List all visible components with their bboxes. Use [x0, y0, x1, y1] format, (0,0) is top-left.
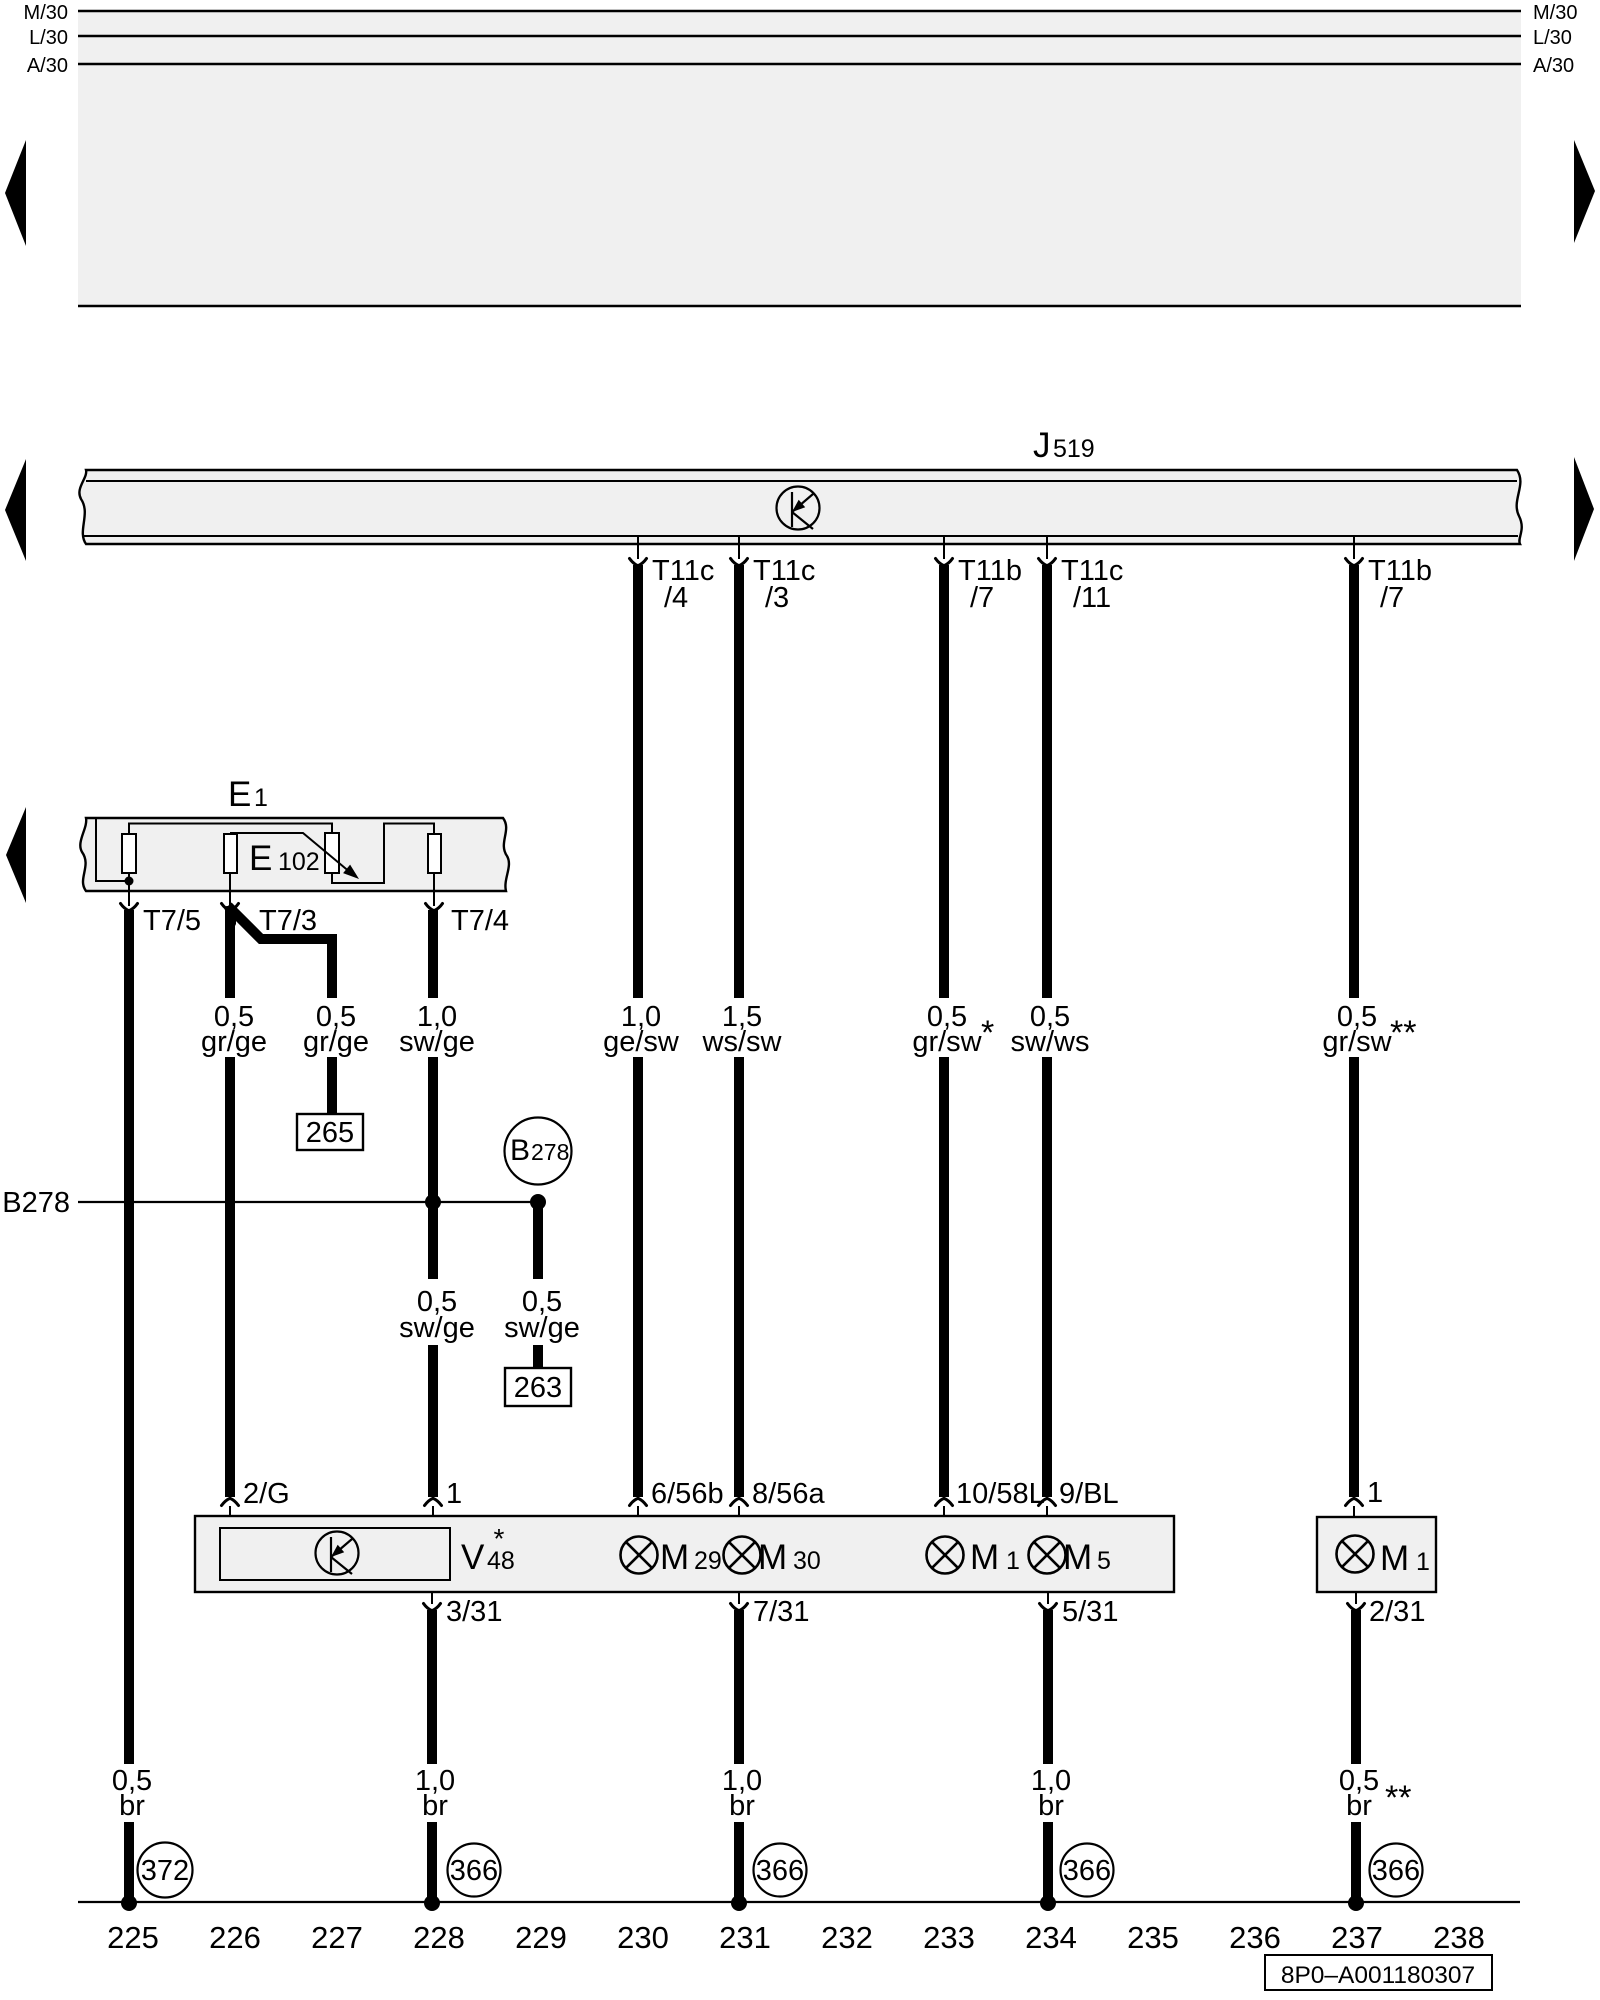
track number 231 — [719, 1920, 771, 1955]
svg-text:366: 366 — [756, 1855, 804, 1887]
svg-text:229: 229 — [515, 1920, 567, 1955]
ground rail — [78, 1901, 1520, 1903]
pin 1 of M1 — [1346, 1477, 1384, 1517]
svg-text:A/30: A/30 — [1533, 55, 1574, 77]
lamp unit bar — [195, 1516, 1174, 1592]
svg-text:ws/sw: ws/sw — [702, 1026, 783, 1058]
label 0,5 gr/sw * — [912, 1001, 994, 1058]
page arrow right J519 — [1574, 457, 1594, 561]
label L/30 right — [1533, 27, 1572, 49]
ground junction track237 — [1348, 1895, 1364, 1911]
E1 internal wire right step — [332, 824, 434, 884]
svg-text:519: 519 — [1053, 435, 1095, 463]
svg-text:sw/ge: sw/ge — [399, 1026, 475, 1058]
net B278 wire — [78, 1201, 538, 1203]
svg-text:T7/3: T7/3 — [259, 905, 317, 937]
wire L/30 — [78, 35, 1521, 37]
label 0,5 br ** track237 — [1339, 1765, 1412, 1822]
wire 0,5 sw/ge from B278 — [533, 1202, 543, 1279]
svg-text:L/30: L/30 — [1533, 27, 1572, 49]
wire 1,0 br track228 lower — [427, 1822, 437, 1902]
svg-text:br: br — [119, 1790, 145, 1822]
wire 0,5 gr/sw ** lower — [1349, 1057, 1359, 1497]
wire 0,5 gr/sw upper — [939, 565, 949, 998]
pin 7/31 — [731, 1592, 810, 1628]
label 1,0 ge/sw — [603, 1001, 680, 1058]
J519 pin T11c/3 — [731, 536, 816, 614]
track number 238 — [1433, 1920, 1485, 1955]
J519 pin T11b/7 right — [1346, 536, 1432, 614]
svg-text:30: 30 — [793, 1547, 821, 1575]
wire sw/ge to pin 1 — [428, 1345, 438, 1497]
label 0,5 gr/ge track226 — [201, 1001, 267, 1058]
wire 0,5 sw/ws lower — [1042, 1057, 1052, 1497]
wire to box 265 — [327, 1057, 337, 1115]
lamp M5 — [1029, 1537, 1111, 1578]
wire 0,5 br track225 lower — [124, 1822, 134, 1902]
pin 9/BL — [1039, 1478, 1119, 1516]
wire 1,5 ws/sw upper — [734, 565, 744, 998]
svg-text:226: 226 — [209, 1920, 261, 1955]
svg-text:M: M — [758, 1538, 787, 1577]
wire 1,0 ge/sw lower — [633, 1057, 643, 1497]
track number 225 — [107, 1920, 159, 1955]
svg-text:V: V — [461, 1538, 485, 1577]
V48 internal symbol K — [316, 1532, 359, 1575]
svg-text:234: 234 — [1025, 1920, 1077, 1955]
wire branch to 265 — [226, 906, 332, 998]
dimmer E102 wire and arrow — [230, 833, 359, 879]
page arrow right top — [1574, 140, 1595, 243]
svg-text:gr/ge: gr/ge — [303, 1026, 369, 1058]
J519 pin T11c/11 — [1039, 536, 1124, 614]
svg-text:/7: /7 — [1380, 582, 1404, 614]
svg-text:M/30: M/30 — [24, 2, 68, 24]
label 0,5 gr/ge branch — [303, 1001, 369, 1058]
ground point 366 track228 — [448, 1844, 501, 1897]
svg-text:366: 366 — [1372, 1855, 1420, 1887]
track number 237 — [1331, 1920, 1383, 1955]
J519 pin T11b/7 — [936, 536, 1022, 614]
pin T7/5 — [121, 904, 202, 938]
wire 0,5 br track237 lower — [1351, 1822, 1361, 1902]
svg-text:1: 1 — [1416, 1548, 1430, 1576]
label A/30 right — [1533, 55, 1574, 77]
svg-text:7/31: 7/31 — [753, 1596, 809, 1628]
svg-text:232: 232 — [821, 1920, 873, 1955]
wire M/30 — [78, 10, 1521, 12]
track number 228 — [413, 1920, 465, 1955]
E1 pin line T7/5 — [128, 873, 130, 906]
label M/30 left — [24, 2, 68, 24]
wire 0,5 gr/sw ** upper — [1349, 565, 1359, 998]
svg-text:1: 1 — [446, 1478, 462, 1510]
wire 0,5 sw/ws upper — [1042, 565, 1052, 998]
pin 1 of V48 — [425, 1478, 463, 1516]
wire 0,5 br track237 upper — [1351, 1610, 1361, 1764]
svg-text:J: J — [1033, 426, 1051, 465]
svg-text:5/31: 5/31 — [1062, 1596, 1118, 1628]
svg-text:233: 233 — [923, 1920, 975, 1955]
svg-text:gr/sw: gr/sw — [912, 1026, 982, 1058]
svg-text:227: 227 — [311, 1920, 363, 1955]
svg-text:br: br — [1038, 1790, 1064, 1822]
lamp M29 — [621, 1537, 722, 1578]
page arrow left E1 — [6, 807, 26, 903]
svg-text:1: 1 — [254, 784, 268, 812]
pin T7/4 — [426, 904, 510, 938]
ground point 366 track231 — [754, 1844, 807, 1897]
wire 1,0 sw/ge upper — [428, 910, 438, 998]
pin 2/G — [222, 1478, 290, 1516]
label 1,0 br track231 — [722, 1765, 762, 1822]
track number 232 — [821, 1920, 873, 1955]
pin 3/31 — [424, 1592, 503, 1628]
svg-text:/11: /11 — [1073, 582, 1111, 614]
junction dot B278 end — [530, 1194, 546, 1210]
wire A/30 — [78, 63, 1521, 65]
J519 internal symbol K — [777, 487, 820, 530]
svg-text:/7: /7 — [970, 582, 994, 614]
ground junction track228 — [424, 1895, 440, 1911]
svg-text:1: 1 — [1367, 1477, 1383, 1509]
svg-text:237: 237 — [1331, 1920, 1383, 1955]
pin 6/56b — [630, 1478, 724, 1516]
svg-text:9/BL: 9/BL — [1059, 1478, 1119, 1510]
ground junction track231 — [731, 1895, 747, 1911]
svg-text:E: E — [249, 839, 272, 878]
J519 pin T11c/4 — [630, 536, 715, 614]
svg-text:2/G: 2/G — [243, 1478, 290, 1510]
wire 1,0 br track234 lower — [1043, 1822, 1053, 1902]
svg-text:T7/4: T7/4 — [451, 905, 509, 937]
E1 contact element 3 — [325, 833, 339, 873]
label 0,5 gr/sw ** — [1322, 1001, 1416, 1058]
svg-text:102: 102 — [278, 848, 320, 876]
svg-text:225: 225 — [107, 1920, 159, 1955]
label 1,5 ws/sw — [702, 1001, 783, 1058]
E1 pin line T7/4 — [433, 873, 435, 906]
svg-text:263: 263 — [514, 1372, 562, 1404]
svg-text:sw/ge: sw/ge — [504, 1312, 580, 1344]
svg-text:366: 366 — [450, 1855, 498, 1887]
svg-text:235: 235 — [1127, 1920, 1179, 1955]
track number 236 — [1229, 1920, 1281, 1955]
svg-text:8P0–A001180307: 8P0–A001180307 — [1281, 1962, 1475, 1989]
pin 5/31 — [1040, 1592, 1119, 1628]
wire 1,0 ge/sw upper — [633, 565, 643, 998]
svg-text:366: 366 — [1063, 1855, 1111, 1887]
E1 contact element 4 — [428, 834, 441, 873]
svg-text:br: br — [729, 1790, 755, 1822]
svg-text:372: 372 — [141, 1855, 189, 1887]
track number 234 — [1025, 1920, 1077, 1955]
wire 0,5 br from T7/5 — [124, 910, 134, 1764]
svg-text:B278: B278 — [2, 1187, 70, 1219]
svg-text:M: M — [1063, 1538, 1092, 1577]
part number box — [1265, 1955, 1492, 1990]
svg-text:M/30: M/30 — [1533, 2, 1577, 24]
E1 contact element 2 — [224, 834, 237, 873]
svg-text:T7/5: T7/5 — [143, 905, 201, 937]
svg-text:gr/ge: gr/ge — [201, 1026, 267, 1058]
wire 1,5 ws/sw lower — [734, 1057, 744, 1497]
svg-text:M: M — [660, 1538, 689, 1577]
pin 2/31 — [1348, 1592, 1426, 1628]
svg-text:ge/sw: ge/sw — [603, 1026, 680, 1058]
track number 235 — [1127, 1920, 1179, 1955]
svg-text:*: * — [494, 1523, 505, 1554]
label 0,5 sw/ge left — [399, 1286, 475, 1344]
svg-text:**: ** — [1390, 1014, 1416, 1052]
svg-text:3/31: 3/31 — [446, 1596, 502, 1628]
svg-text:M: M — [970, 1538, 999, 1577]
svg-text:2/31: 2/31 — [1369, 1596, 1425, 1628]
wire 0,5 gr/ge lower — [225, 1057, 235, 1497]
wire 0,5 gr/ge from T7/3 upper — [225, 910, 235, 998]
svg-text:gr/sw: gr/sw — [1322, 1026, 1392, 1058]
track number 226 — [209, 1920, 261, 1955]
svg-text:/4: /4 — [664, 582, 688, 614]
connection box 263 — [505, 1368, 571, 1406]
wire 1,0 br track231 upper — [734, 1610, 744, 1764]
ground point 372 — [138, 1843, 193, 1898]
label 1,0 sw/ge — [399, 1001, 475, 1058]
ground junction track234 — [1040, 1895, 1056, 1911]
svg-text:5: 5 — [1097, 1547, 1111, 1575]
svg-text:278: 278 — [531, 1139, 569, 1165]
E1 internal wire left — [96, 819, 129, 881]
wire to box 263 — [533, 1345, 543, 1369]
svg-text:8/56a: 8/56a — [752, 1478, 825, 1510]
svg-text:1: 1 — [1006, 1547, 1020, 1575]
svg-text:238: 238 — [1433, 1920, 1485, 1955]
E1 contact element 1 — [122, 834, 136, 873]
ground point 366 track234 — [1061, 1844, 1114, 1897]
svg-text:M: M — [1380, 1539, 1409, 1578]
lamp M1 — [927, 1537, 1020, 1578]
track number 227 — [311, 1920, 363, 1955]
pin 8/56a — [731, 1478, 826, 1516]
label L/30 left — [29, 27, 68, 49]
svg-text:/3: /3 — [765, 582, 789, 614]
switch E1 box — [80, 818, 509, 891]
V48 inner box — [220, 1528, 450, 1580]
track number 230 — [617, 1920, 669, 1955]
svg-text:230: 230 — [617, 1920, 669, 1955]
page arrow left top — [5, 140, 26, 246]
svg-text:sw/ge: sw/ge — [399, 1312, 475, 1344]
svg-text:br: br — [422, 1790, 448, 1822]
track number 233 — [923, 1920, 975, 1955]
ground point 366 track237 — [1370, 1844, 1423, 1897]
pin T7/3 — [222, 904, 318, 938]
svg-text:236: 236 — [1229, 1920, 1281, 1955]
svg-text:29: 29 — [694, 1547, 722, 1575]
pin 10/58L — [936, 1478, 1045, 1516]
connection box 265 — [297, 1114, 363, 1150]
label 1,0 br track234 — [1031, 1765, 1071, 1822]
svg-text:*: * — [981, 1014, 994, 1052]
svg-text:6/56b: 6/56b — [651, 1478, 724, 1510]
svg-text:B: B — [510, 1134, 530, 1167]
svg-text:265: 265 — [306, 1117, 354, 1149]
svg-text:E: E — [228, 775, 251, 814]
power rail band 30 — [78, 11, 1521, 306]
lamp M1 right — [1337, 1536, 1430, 1579]
control unit J519 box — [79, 470, 1521, 544]
svg-text:231: 231 — [719, 1920, 771, 1955]
node label B278 — [2, 1187, 70, 1219]
E1 internal junction dot — [125, 877, 134, 886]
wire 1,0 sw/ge mid — [428, 1057, 438, 1279]
junction dot B278 on sw/ge — [425, 1194, 441, 1210]
control unit J519 label — [1033, 426, 1095, 465]
svg-text:10/58L: 10/58L — [956, 1478, 1045, 1510]
wire 1,0 br track234 upper — [1043, 1610, 1053, 1764]
E1 pin line T7/3 — [229, 873, 231, 906]
sensor point B278 circle — [505, 1118, 572, 1185]
lamp unit M1 box — [1317, 1517, 1436, 1592]
wire 1,0 br track228 upper — [427, 1610, 437, 1764]
wire 0,5 gr/sw lower — [939, 1057, 949, 1497]
label 0,5 br track225 — [112, 1765, 152, 1822]
track number 229 — [515, 1920, 567, 1955]
page arrow left J519 — [5, 459, 26, 561]
ground junction track225 — [121, 1895, 137, 1911]
svg-text:228: 228 — [413, 1920, 465, 1955]
svg-text:A/30: A/30 — [27, 55, 68, 77]
label 1,0 br track228 — [415, 1765, 455, 1822]
svg-text:L/30: L/30 — [29, 27, 68, 49]
svg-text:br: br — [1346, 1790, 1372, 1822]
switch E1 label — [228, 775, 268, 814]
wire 1,0 br track231 lower — [734, 1822, 744, 1902]
svg-text:sw/ws: sw/ws — [1011, 1026, 1090, 1058]
motor V48 label — [461, 1523, 515, 1577]
lamp M30 — [724, 1537, 821, 1578]
label M/30 right — [1533, 2, 1577, 24]
label A/30 left — [27, 55, 68, 77]
dimmer E102 label — [249, 839, 320, 878]
label 0,5 sw/ge right — [504, 1286, 580, 1344]
svg-text:**: ** — [1385, 1779, 1411, 1817]
label 0,5 sw/ws — [1011, 1001, 1090, 1058]
E1 internal wire top — [129, 824, 332, 835]
